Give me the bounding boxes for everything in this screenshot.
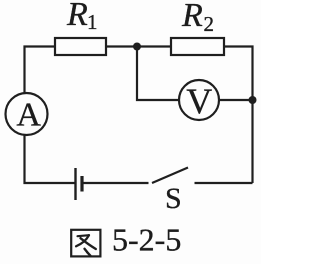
resistor R2 xyxy=(171,38,224,55)
label R1 xyxy=(66,0,98,34)
wire voltmeter branch: node A down and right to voltmeter xyxy=(137,47,179,101)
svg-text:5-2-5: 5-2-5 xyxy=(112,222,181,258)
wire R1 to node A xyxy=(106,45,137,47)
ammeter A circle xyxy=(6,93,48,135)
svg-text:A: A xyxy=(16,97,41,134)
wire voltmeter to node B xyxy=(219,99,253,101)
resistor R1 xyxy=(55,38,106,55)
battery cell long plate xyxy=(74,168,76,200)
wire right side: node B down to bottom-right corner xyxy=(251,100,253,183)
caption character 图 (drawn) xyxy=(71,230,100,257)
svg-text:2: 2 xyxy=(204,12,215,36)
node A junction dot xyxy=(133,43,141,51)
label R2 xyxy=(181,0,214,36)
battery cell short plate xyxy=(80,176,83,192)
svg-text:S: S xyxy=(165,182,182,215)
switch S lever xyxy=(152,168,188,184)
svg-text:R: R xyxy=(66,0,88,33)
svg-text:1: 1 xyxy=(87,10,98,34)
wire battery to switch xyxy=(84,182,149,184)
svg-text:V: V xyxy=(186,81,212,121)
wire ammeter bottom to bottom-left corner to battery xyxy=(25,135,75,184)
wire top-left: ammeter top up and right to R1 xyxy=(25,47,56,94)
wire node A to R2 xyxy=(137,45,171,47)
voltmeter V circle xyxy=(179,80,219,120)
wire switch to bottom-right corner xyxy=(195,182,253,184)
wire top-right: R2 to right corner down to node B xyxy=(224,47,253,101)
svg-text:R: R xyxy=(181,0,203,34)
node B junction dot xyxy=(249,96,257,104)
